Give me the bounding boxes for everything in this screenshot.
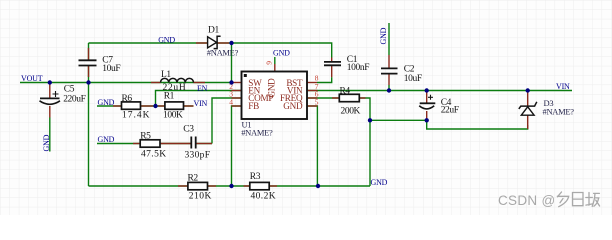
wire jog to D3 anode	[427, 120, 528, 129]
capacitor C5 polarized	[40, 84, 86, 104]
svg-text:R6: R6	[122, 94, 133, 104]
svg-text:#NAME?: #NAME?	[241, 127, 273, 137]
svg-text:VOUT: VOUT	[21, 74, 43, 83]
pin name FB	[248, 101, 259, 111]
net label VOUT	[21, 74, 43, 83]
net label VIN rail	[556, 82, 570, 91]
svg-text:GND: GND	[371, 178, 388, 187]
pin lead R2 left	[178, 185, 188, 187]
pin lead C4 bottom	[426, 111, 428, 120]
svg-text:4: 4	[229, 98, 233, 107]
svg-text:GND: GND	[98, 135, 115, 144]
pin lead R6 left	[113, 105, 122, 107]
resistor R1	[163, 91, 184, 120]
inductor L1	[161, 70, 194, 93]
pin lead C5 bottom	[49, 106, 51, 118]
svg-text:5: 5	[315, 98, 319, 107]
svg-text:VIN: VIN	[194, 99, 208, 108]
pin number 8	[315, 73, 319, 82]
capacitor C1	[324, 55, 369, 73]
svg-text:CSDN @: CSDN @	[498, 193, 556, 208]
svg-text:#NAME?: #NAME?	[207, 47, 239, 57]
svg-text:C3: C3	[183, 124, 194, 134]
net label VIN R1	[194, 99, 208, 108]
watermark CSDN	[498, 192, 600, 208]
pin lead R2 right	[208, 185, 217, 187]
pin lead R1 right	[184, 105, 194, 107]
svg-text:17.4K: 17.4K	[122, 111, 151, 121]
net label GND vertical C5	[42, 134, 51, 151]
resistor R4	[339, 86, 360, 116]
pin lead C1 top	[331, 58, 333, 62]
pin lead C5 top	[49, 83, 51, 98]
wire C5 to GND stub	[49, 118, 51, 152]
junction node R6/R1 EN	[153, 104, 157, 108]
net label GND vertical C2	[379, 27, 388, 44]
junction node D1 cathode	[229, 41, 233, 45]
wire VIN rail	[307, 90, 572, 92]
op-amp U1 regulator body	[241, 72, 307, 138]
svg-text:22uF: 22uF	[441, 106, 459, 116]
pin U1.5 GND stub	[307, 105, 317, 107]
wire R5-C3 row	[97, 143, 212, 145]
wire C2 branch	[388, 23, 390, 91]
svg-text:R2: R2	[188, 174, 199, 184]
wire top GND rail	[89, 43, 332, 58]
svg-text:GND: GND	[379, 27, 388, 44]
pin U1.4 FB stub	[232, 105, 242, 107]
pin number 4	[229, 98, 233, 107]
svg-text:GND: GND	[158, 36, 175, 45]
capacitor C3	[183, 124, 210, 160]
resistor R6	[122, 94, 151, 121]
wire FREQ row and R4 drop	[307, 98, 370, 186]
net label GND bottom corner	[371, 178, 388, 187]
junction node C4 bottom	[425, 118, 429, 122]
junction node SW	[229, 80, 233, 84]
pin name VIN	[287, 86, 303, 96]
pin lead C2 bottom	[388, 74, 390, 85]
svg-text:R3: R3	[250, 172, 261, 182]
pin lead R5 right to C3	[160, 143, 191, 145]
svg-text:EN: EN	[197, 84, 208, 93]
pin name EN	[248, 86, 260, 96]
pin lead R5 left	[133, 143, 140, 145]
svg-text:330pF: 330pF	[185, 151, 211, 161]
svg-text:40.2K: 40.2K	[251, 191, 277, 201]
junction node R2/R3 FB	[229, 184, 233, 188]
svg-text:210K: 210K	[189, 191, 212, 201]
pin lead R4 right	[359, 97, 365, 99]
svg-text:L1: L1	[161, 70, 171, 80]
svg-text:8: 8	[315, 73, 319, 82]
wire COMP to C3	[212, 98, 242, 144]
svg-text:100nF: 100nF	[347, 63, 369, 73]
pin lead D1 cathode	[217, 42, 229, 44]
pin name COMP	[248, 93, 273, 103]
wire bottom rail	[89, 185, 371, 187]
junction node R4 drop	[368, 118, 372, 122]
pin U1.6 FREQ stub	[307, 97, 317, 99]
svg-text:GND: GND	[98, 98, 115, 107]
svg-text:R1: R1	[164, 91, 175, 101]
junction node C2/VIN	[387, 88, 391, 92]
svg-text:R4: R4	[340, 86, 351, 96]
junction node C7/VOUT	[86, 80, 90, 84]
wire C4 bottom row	[370, 119, 427, 121]
wire BST to C1	[317, 77, 332, 82]
pin number 7	[315, 82, 319, 91]
wire D1 cathode to SW node	[231, 43, 233, 83]
pin number 6	[315, 90, 319, 99]
capacitor C4 polarized	[419, 95, 459, 116]
svg-text:GND: GND	[283, 101, 303, 111]
net label GND pin9	[273, 48, 290, 57]
svg-text:GND: GND	[42, 134, 51, 151]
pin name GND	[283, 101, 303, 111]
svg-text:GND: GND	[267, 78, 277, 98]
pin number 3	[229, 90, 233, 99]
junction node C4/VIN	[425, 88, 429, 92]
pin lead R3 left	[244, 185, 250, 187]
svg-text:VIN: VIN	[556, 82, 570, 91]
diode D3 zener	[519, 98, 574, 116]
net label EN	[197, 84, 208, 93]
pin lead R3 right	[269, 185, 277, 187]
pin lead C3 right	[196, 143, 212, 145]
pin lead L1 left	[151, 82, 161, 84]
junction node R3/GND	[316, 184, 320, 188]
pin U1.1 SW stub	[232, 82, 242, 84]
pin U1.7 VIN stub	[307, 90, 317, 92]
svg-text:9: 9	[265, 61, 274, 65]
svg-text:100K: 100K	[163, 110, 183, 120]
svg-text:47.5K: 47.5K	[141, 150, 167, 160]
svg-text:R5: R5	[140, 131, 151, 141]
capacitor C2	[381, 65, 422, 84]
wire pin9 GND stub	[274, 57, 276, 64]
wire pin5 GND drop	[307, 106, 317, 186]
pin U1.8 BST stub	[307, 82, 317, 84]
pin lead C7 bottom	[88, 66, 90, 77]
wire FB to R2/R3 node	[232, 106, 242, 186]
svg-text:220uF: 220uF	[63, 95, 85, 105]
pin number 9 rotated	[265, 61, 274, 65]
svg-text:GND: GND	[273, 48, 290, 57]
svg-text:D1: D1	[208, 26, 219, 36]
svg-text:10uF: 10uF	[404, 74, 422, 84]
pin lead D3 anode	[527, 116, 529, 130]
pin name BST	[286, 78, 303, 88]
wire EN net	[156, 91, 242, 107]
wire left drop to bottom rail	[88, 83, 90, 187]
svg-text:#NAME?: #NAME?	[543, 106, 575, 116]
pin lead C7 top	[88, 48, 90, 60]
net label GND R5	[98, 135, 115, 144]
pin name FREQ	[280, 93, 303, 103]
pin lead D1 anode	[196, 42, 208, 44]
diode D1	[207, 26, 239, 58]
capacitor C7	[79, 55, 121, 74]
svg-text:200K: 200K	[341, 107, 361, 117]
pin lead R4 left	[332, 97, 339, 99]
wire C7 vertical	[88, 43, 90, 83]
pin lead C1 bottom	[331, 66, 333, 77]
net label GND top rail	[158, 36, 175, 45]
wire R6-R1 row	[97, 105, 194, 107]
wire VOUT rail	[20, 82, 232, 84]
pin name SW	[248, 78, 262, 88]
svg-text:FB: FB	[248, 101, 259, 111]
resistor R5	[140, 131, 166, 159]
svg-text:10uF: 10uF	[102, 64, 120, 74]
pin lead R1 left	[158, 105, 165, 107]
svg-text:C5: C5	[64, 84, 75, 94]
resistor R2	[188, 174, 212, 202]
pin lead C4 top	[426, 91, 428, 103]
pin U1.9 GND stub	[274, 64, 276, 72]
net label GND R6	[98, 98, 115, 107]
pin lead C2 top	[388, 55, 390, 68]
pin U1.2 EN stub	[232, 90, 242, 92]
pin name GND vertical pin9	[267, 78, 277, 98]
junction node D3/VIN	[526, 88, 530, 92]
pin lead L1 right	[194, 82, 206, 84]
pin number 2	[229, 82, 233, 91]
resistor R3	[250, 172, 276, 201]
pin U1.3 COMP stub	[232, 97, 242, 99]
junction node C5/VOUT	[48, 80, 52, 84]
pin number 5	[315, 98, 319, 107]
pin lead D3 cathode	[527, 91, 529, 106]
pin lead R6 right	[141, 105, 153, 107]
